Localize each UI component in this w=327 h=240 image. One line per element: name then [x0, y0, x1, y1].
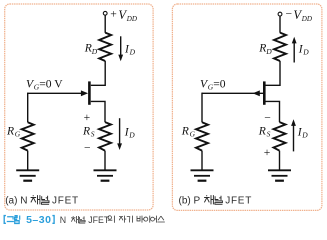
wire VDD to RD — [104, 16, 106, 33]
svg-text:−: − — [286, 8, 293, 21]
svg-text:G: G — [15, 130, 21, 139]
label ID (left bottom) — [124, 125, 135, 139]
wire VDD to RD (right) — [279, 16, 281, 33]
svg-text:(b) P: (b) P — [179, 195, 201, 206]
resistor RS (right) — [274, 122, 286, 151]
svg-text:R: R — [6, 124, 14, 137]
label -VDD — [286, 8, 312, 24]
ground under RS (left) — [94, 170, 117, 180]
JFET Q1 channel bar — [88, 81, 91, 104]
svg-text:D: D — [128, 131, 135, 140]
wire RS to ground (right) — [279, 151, 281, 171]
svg-text:−: − — [84, 141, 91, 154]
svg-text:D: D — [91, 47, 98, 56]
ground under RG (left) — [16, 170, 39, 180]
wire gate to RG (right) — [201, 93, 203, 123]
svg-text:D: D — [302, 48, 309, 57]
current arrow ID (right bottom, up) — [291, 119, 296, 151]
label RS (right) — [258, 124, 271, 138]
label ID (right top) — [298, 42, 309, 56]
svg-text:5–30: 5–30 — [26, 214, 51, 226]
ground under RG (right) — [191, 170, 214, 180]
label +VDD — [110, 8, 137, 24]
label VG=0 (right) — [200, 78, 226, 92]
JFET Q1 source lead — [91, 101, 105, 122]
wire RG to ground — [27, 151, 29, 171]
label RG (left) — [6, 124, 21, 138]
svg-text:R: R — [82, 124, 90, 137]
svg-text:(a) N: (a) N — [5, 195, 27, 206]
label ID (left top) — [124, 42, 136, 56]
terminal -VDD — [278, 12, 282, 16]
svg-text:DD: DD — [301, 15, 312, 23]
JFET Q1 gate wire with arrow — [28, 90, 88, 96]
svg-text:JFET: JFET — [88, 215, 110, 225]
current arrow ID (left bottom) — [117, 118, 122, 150]
svg-text:G: G — [190, 130, 196, 139]
caption (a) — [5, 195, 79, 206]
JFET Q2 source lead — [266, 101, 280, 122]
JFET Q2 channel bar — [263, 81, 266, 104]
svg-text:R: R — [258, 124, 266, 137]
wire RS to ground (left) — [104, 151, 106, 171]
svg-text:R: R — [258, 42, 266, 55]
svg-text:−: − — [264, 112, 271, 125]
svg-text:S: S — [91, 130, 95, 139]
resistor RS (left) — [99, 122, 111, 151]
figure caption number — [4, 214, 54, 226]
resistor RD (right) — [274, 33, 286, 61]
current arrow ID (right top, up) — [292, 37, 297, 63]
wire gate to RG — [27, 93, 29, 123]
svg-text:+: + — [264, 146, 271, 159]
wire RG to ground (right) — [201, 151, 203, 171]
panel border (b) — [172, 4, 322, 210]
svg-text:=0: =0 — [213, 78, 226, 91]
svg-text:S: S — [267, 130, 271, 139]
svg-text:D: D — [265, 47, 272, 56]
wire RD to drain (right) — [266, 61, 281, 85]
svg-text:+: + — [84, 111, 91, 124]
svg-text:N: N — [60, 215, 66, 225]
resistor RG (left) — [22, 122, 34, 150]
svg-text:JFET: JFET — [225, 195, 252, 206]
label RD (right) — [258, 42, 272, 56]
wire RD to drain — [91, 61, 105, 85]
svg-text:=0 V: =0 V — [39, 78, 63, 91]
label ID (right bottom) — [297, 125, 308, 139]
figure caption text — [60, 215, 165, 225]
svg-text:R: R — [84, 42, 92, 55]
panel border (a) — [5, 4, 153, 210]
label RD (left) — [84, 42, 98, 56]
svg-text:DD: DD — [126, 15, 137, 23]
svg-text:D: D — [301, 131, 308, 140]
ground under RS (right) — [268, 170, 291, 180]
label RS (left) — [82, 124, 95, 138]
svg-text:R: R — [181, 124, 189, 137]
label RG (right) — [181, 124, 196, 138]
label VG=0 V — [26, 78, 63, 92]
resistor RD (left) — [99, 33, 111, 61]
JFET Q2 gate wire with arrow (P-channel, arrow out) — [202, 90, 263, 96]
current arrow ID (left top) — [118, 36, 123, 61]
caption (b) — [179, 195, 253, 206]
terminal +VDD — [103, 11, 107, 15]
svg-text:+: + — [110, 8, 117, 21]
resistor RG (right) — [196, 122, 208, 150]
svg-text:D: D — [129, 48, 136, 57]
svg-text:JFET: JFET — [52, 195, 79, 206]
